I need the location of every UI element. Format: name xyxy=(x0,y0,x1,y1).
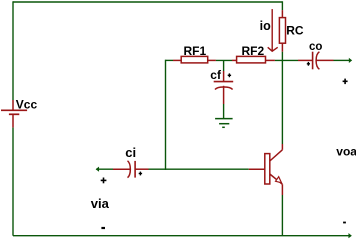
capacitor ci xyxy=(113,161,149,178)
wire: co to output xyxy=(334,59,350,61)
svg-text:voa: voa xyxy=(336,144,356,158)
co polarity + xyxy=(307,62,310,66)
input - label xyxy=(101,227,105,229)
capacitor co xyxy=(298,52,334,70)
svg-text:co: co xyxy=(309,41,322,53)
input + label xyxy=(101,178,107,184)
wire: between RF1 and RF2 xyxy=(216,59,232,61)
svg-text:cf: cf xyxy=(210,68,222,82)
wire: RC top stub xyxy=(281,1,283,10)
capacitor cf xyxy=(214,71,234,104)
svg-text:Vcc: Vcc xyxy=(16,98,38,112)
output + label xyxy=(343,79,348,85)
wire: cf to ground xyxy=(223,104,225,119)
wire: feedback vertical (down to base node) xyxy=(165,60,167,170)
input terminal arrow (left) xyxy=(96,167,99,171)
svg-text:RC: RC xyxy=(286,24,304,38)
ci polarity + xyxy=(139,172,142,176)
svg-text:io: io xyxy=(260,19,271,33)
battery Vcc xyxy=(1,100,27,128)
output terminal arrow (bottom right) xyxy=(349,234,352,238)
svg-text:RF1: RF1 xyxy=(184,44,207,58)
output - label xyxy=(343,222,346,224)
wire: bottom rail xyxy=(13,235,349,237)
wire: input to ci xyxy=(96,168,113,170)
wire: RF2 through RC node to co xyxy=(275,59,298,61)
resistor RF1 xyxy=(173,56,216,63)
resistor RF2 xyxy=(232,56,275,63)
wire: emitter to bottom rail xyxy=(281,195,283,236)
wire: left rail lower (battery to bottom rail) xyxy=(12,128,14,236)
wire: feedback corner to RF1 xyxy=(166,59,174,61)
wire: RC bottom to collector node xyxy=(281,52,283,144)
wire: top rail from Vcc to RC xyxy=(13,1,282,3)
wire: left rail upper (top rail to battery) xyxy=(12,1,14,100)
transistor Q1 xyxy=(249,144,283,195)
output terminal arrow (top right) xyxy=(349,59,351,63)
svg-text:ci: ci xyxy=(125,145,136,160)
ground xyxy=(215,119,233,128)
wire: ci to base xyxy=(149,168,249,170)
svg-text:RF2: RF2 xyxy=(242,44,265,58)
resistor RC xyxy=(279,10,285,52)
wire: cf top stub xyxy=(223,60,225,71)
current arrow io xyxy=(268,9,278,51)
svg-text:via: via xyxy=(91,196,110,211)
cf polarity + xyxy=(228,73,231,77)
